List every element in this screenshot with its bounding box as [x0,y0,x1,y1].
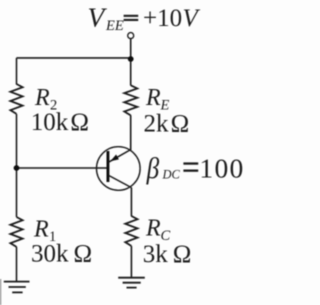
resistor R1 [10,217,22,247]
svg-text:R: R [145,85,161,111]
wire collector down [130,188,132,217]
svg-text:100: 100 [199,153,244,184]
svg-text:EE: EE [105,18,124,34]
ground right [118,278,145,288]
wire terminal to junction [130,39,132,59]
svg-text:+10: +10 [143,5,182,32]
node junction base [14,165,20,171]
resistor RE [124,85,137,115]
label VEE = +10V [88,2,201,35]
svg-text:R: R [33,217,49,243]
svg-text:β: β [146,151,160,185]
resistor R2 [10,84,22,114]
svg-text:R: R [145,216,161,242]
svg-text:R: R [34,85,50,111]
wire RE to transistor [130,115,132,150]
transistor Q1 circle [97,147,141,191]
svg-text:DC: DC [162,168,181,182]
label R1 [33,217,56,246]
transistor Q1 emitter lead [109,150,131,163]
wire left vertical top [16,58,18,85]
node junction top [128,56,134,62]
wire top horizontal [17,57,131,59]
transistor Q1 collector lead [109,175,132,187]
wire right vertical to RE [130,59,132,86]
page edge artifact [0,279,2,305]
svg-text:10k Ω: 10k Ω [31,109,89,136]
wire left vertical bottom [16,247,18,282]
ground left [4,282,30,293]
label R2 [34,85,57,114]
wire RC to ground [130,246,132,278]
svg-text:2k Ω: 2k Ω [144,111,190,138]
label RC [145,216,171,245]
transistor Q1 emitter arrow [110,155,119,162]
svg-text:30k Ω: 30k Ω [31,241,92,268]
label beta DC = 100 [146,151,245,185]
label RE [145,85,170,114]
terminal VEE [128,33,134,39]
resistor RC [125,216,137,246]
wire base [17,167,108,169]
wire left vertical middle [16,114,18,217]
transistor Q1 base bar [107,151,110,182]
svg-text:3k Ω: 3k Ω [143,241,192,268]
